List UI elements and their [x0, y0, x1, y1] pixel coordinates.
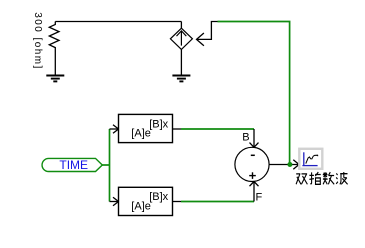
- svg-text:[A]e: [A]e: [131, 128, 151, 140]
- wire into controlled source top: [180, 22, 182, 29]
- resistor R1: [49, 22, 59, 53]
- control input arrow of source: [197, 22, 218, 46]
- label 指: [309, 172, 320, 184]
- arrow into block2: [113, 197, 119, 206]
- svg-text:300 [ohm]: 300 [ohm]: [32, 12, 43, 70]
- svg-text:F: F: [256, 192, 263, 204]
- svg-text:[B]x: [B]x: [149, 118, 168, 130]
- output arrow into scope: [293, 160, 299, 170]
- label 波: [336, 172, 347, 184]
- wire top horizontal from resistor to source: [55, 21, 181, 23]
- controlled current source I1 (diamond): [170, 28, 192, 49]
- wire down into summer minus input: [253, 129, 255, 147]
- wire block F2 to summer: [181, 201, 254, 203]
- block F1 output stub: [173, 128, 182, 130]
- scope axes: [302, 152, 317, 165]
- scope curve: [306, 155, 318, 163]
- svg-text:[B]x: [B]x: [149, 191, 168, 203]
- arrow into summer bottom: [250, 182, 259, 187]
- wire green top right: [218, 22, 290, 164]
- wire resistor to ground: [54, 52, 56, 76]
- wire stub to block1 input: [110, 128, 119, 130]
- svg-text:B: B: [242, 132, 249, 144]
- wire block F1 to summer: [181, 128, 254, 130]
- TIME source: [42, 158, 102, 171]
- arrow into block1: [113, 125, 119, 134]
- summer output wire: [269, 164, 299, 166]
- junction dot: [287, 162, 292, 167]
- ground below source: [172, 76, 190, 82]
- plus sign: [249, 172, 256, 179]
- exp function block F1: [119, 114, 173, 142]
- ground below resistor: [46, 76, 64, 82]
- svg-text:TIME: TIME: [59, 158, 88, 172]
- arrow inside source: [177, 31, 187, 46]
- wire TIME to branch: [102, 164, 110, 166]
- arrow into summer top: [250, 143, 259, 148]
- wire up into summer plus input: [253, 182, 255, 202]
- block F2 output stub: [173, 201, 182, 203]
- wire source to ground: [180, 49, 182, 75]
- wire branch vertical: [109, 129, 111, 202]
- exp function block F2: [119, 187, 173, 215]
- label 双: [296, 174, 307, 184]
- scope icon frame: [299, 149, 322, 169]
- label 数: [323, 172, 334, 184]
- svg-text:[A]e: [A]e: [131, 200, 151, 212]
- wire stub to block2 input: [110, 201, 119, 203]
- minus sign: [251, 154, 255, 156]
- summing junction U1: [235, 147, 269, 181]
